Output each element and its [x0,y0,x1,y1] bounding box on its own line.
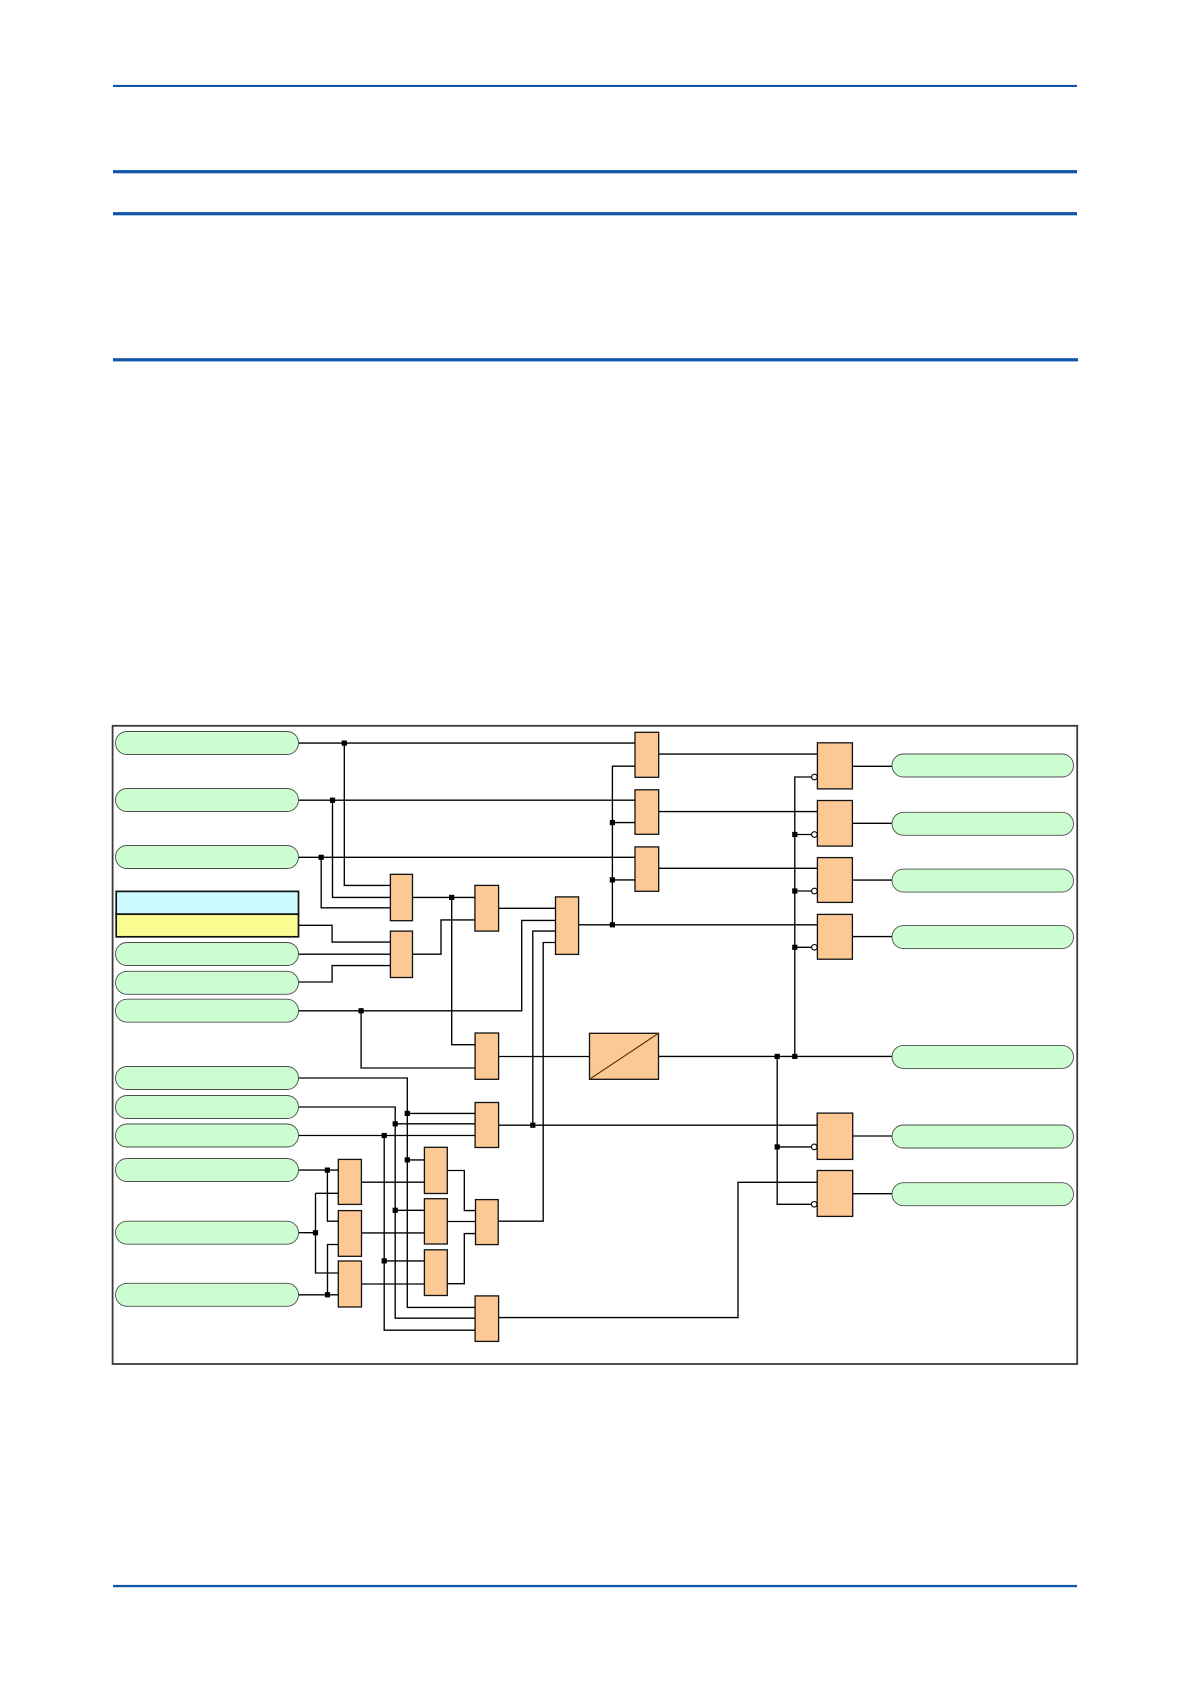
header rule 2 [113,170,1077,173]
input pin row6 [116,943,299,966]
output pin 1 [892,754,1074,777]
bubble D2 [812,832,818,838]
output pin 3 [892,869,1074,892]
junction in9 H1 [405,1157,410,1162]
junction bubble rail D2 [792,832,797,837]
junction input2 [330,798,335,803]
gate D3 [817,858,852,903]
input pin row7 [116,971,299,994]
wire F3 out to H3 [362,1283,425,1285]
output pin 5 [892,1045,1074,1068]
wire G5 out to E1 and G4 [499,931,818,1125]
wire input12 to F1 F2 [299,1170,339,1221]
bubble D3 [812,888,818,894]
bubble E1 [811,1144,817,1150]
gate G4 [556,897,579,955]
gate J1 [476,1200,499,1245]
gate E2 [817,1171,853,1217]
junction rail2 E1 [775,1144,780,1149]
junction input8 [359,1008,364,1013]
gate D4 [817,914,852,959]
gate H1 [424,1147,447,1193]
wire yellow box to G3 [299,925,391,942]
junction enable rail C [610,877,615,882]
wire G1 out to G2 and G6 [413,897,476,1044]
junction in11 G5 [382,1133,387,1138]
gate H3 [424,1250,447,1296]
input pin 13 [116,1221,299,1244]
wire input10 chain to G5 H2 J2 [299,1107,476,1318]
junction G5 out [530,1123,535,1128]
wire input row8 to G4 and G6 [299,920,556,1068]
input pin 11 [116,1124,299,1147]
wire C out to D3 [659,867,818,869]
gate G5 [475,1103,499,1148]
wire D4 out to output4 [852,936,892,938]
junction translator out A [775,1054,780,1059]
input pin 9 [116,1067,299,1090]
wire translator out to output5 [659,1055,893,1057]
wire input row6 to G3 [299,953,391,955]
output pin 7 [892,1183,1074,1206]
gate F3 [338,1261,361,1307]
input pin 10 [116,1096,299,1119]
junction in10 G5 [393,1121,398,1126]
wire E2 out to output7 [853,1193,892,1195]
wire input1 to gate A and G1 [299,743,636,885]
wire input11 chain to G5 H3 J2 [299,1136,476,1331]
wire G2 out to G4 [499,907,556,909]
wire F1 out to H1 [361,1181,424,1183]
gate A [635,732,659,777]
wire H2 out to J1 [447,1221,475,1223]
gate B [635,790,659,835]
wire B out to D2 [659,811,818,813]
junction input1 [342,741,347,746]
input pin row8 [116,999,299,1022]
input pin 14 [116,1283,299,1306]
wire D2 out to output2 [852,822,892,824]
gate D2 [817,801,852,847]
wire input13 to F1 F3 [299,1193,339,1273]
gate G1 [390,874,412,920]
junction G1 out [449,895,454,900]
gate J2 [475,1296,499,1342]
gate G6 [475,1033,499,1079]
wire D1 out to output1 [852,765,892,767]
wire input9 chain to G5 H1 J2 [299,1078,476,1307]
output pin 4 [892,926,1074,949]
gate E1 [817,1113,853,1159]
input pin 3 [116,846,299,869]
wire input2 to gate B and G1 [299,800,636,897]
output pin 2 [892,812,1074,835]
junction bubble rail D4 [792,945,797,950]
junction in14 [325,1292,330,1297]
input pin 2 [116,789,299,812]
wire A out to D1 [659,753,818,755]
input pin 12 [116,1159,299,1182]
wire J1 out to G4 [498,943,555,1222]
wire F2 out to H2 [362,1232,425,1234]
junction in12 [325,1168,330,1173]
wire J2 out to E2 [499,1182,818,1317]
level translator [590,1033,659,1079]
diagram frame [113,726,1078,1364]
section rule [113,358,1078,361]
wire input row7 to G3 [299,966,391,982]
junction translator out B [792,1054,797,1059]
output pin 6 [892,1125,1074,1148]
gate D1 [817,743,852,789]
junction in13 [313,1230,318,1235]
junction input3 [319,855,324,860]
junction enable rail B [610,820,615,825]
wire inverted rail to bubbles D1-D4 [795,777,812,1056]
junction in9 G5 [405,1111,410,1116]
wire D3 out to output3 [852,879,892,881]
wire G4 out to D4 and enable rail [579,766,818,925]
wire E1 out to output6 [853,1135,892,1137]
header rule 3 [113,212,1077,215]
bubble D1 [812,774,818,780]
gate F1 [338,1159,361,1204]
gate G2 [475,885,499,931]
wire H3 out to J1 [447,1234,475,1284]
input pin 1 [116,732,299,755]
wire G6 out to translator [499,1056,590,1058]
bubble E2 [811,1202,817,1208]
junction bubble rail D3 [792,888,797,893]
footer rule [113,1585,1077,1587]
header rule thin [113,85,1077,87]
gate G3 [390,931,412,977]
wire input14 to F3 F2 [299,1245,339,1295]
wire H1 out to J1 [447,1171,475,1211]
gate F2 [338,1211,361,1257]
junction in10 H2 [393,1208,398,1213]
gate H2 [424,1199,447,1244]
bubble D4 [812,945,818,951]
junction in11 H3 [382,1258,387,1263]
wire rail2 to E1 E2 bubbles [777,1056,811,1204]
level translator diagonal [590,1033,659,1079]
wire input3 to gate C and G1 [299,857,636,908]
junction enable rail G4out [610,922,615,927]
yellow pin box [116,914,298,937]
gate C [635,847,659,891]
cyan pin box [116,891,298,914]
wire G3 out to G2 [413,920,475,954]
